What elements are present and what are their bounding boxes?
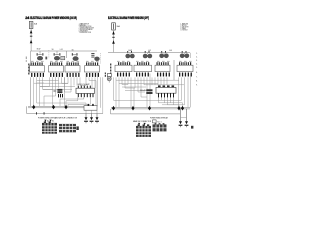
wire right lower jog — [114, 77, 152, 100]
svg-text:B2: B2 — [52, 120, 54, 122]
bottom bus right (double line) — [111, 107, 190, 109]
connector face CN2 (bottom left) — [59, 124, 79, 132]
dashed boundary between S1 S2 — [48, 50, 50, 59]
circuit breaker CB (right) — [107, 74, 111, 83]
wire F2 down — [113, 30, 115, 52]
svg-text:16: 16 — [52, 49, 54, 51]
pin mush inside boxes — [31, 66, 191, 69]
connector arrow A2b — [112, 40, 115, 44]
title right diagram — [108, 16, 149, 20]
switch cluster S3 (left) — [67, 51, 79, 61]
switch cluster S8 (right) — [180, 51, 189, 58]
connector housing box 4 — [85, 66, 100, 72]
connector housing box 3 — [65, 66, 80, 72]
terminal pin row right — [117, 73, 192, 77]
wire jog W2 (amp pin to bus) — [66, 97, 78, 106]
right margin pin list — [196, 53, 198, 87]
figure number 24 — [25, 16, 30, 20]
wire bus to edge column left — [30, 51, 32, 64]
relay K2 (right) — [140, 89, 153, 94]
hatch strip above connector row, right — [118, 62, 191, 65]
pin number mush above strips right — [117, 60, 192, 63]
connector housing box 2 — [49, 66, 64, 72]
connector housing row left: box 1 — [30, 66, 45, 72]
svg-text:7. FUSE JUNCTION: 7. FUSE JUNCTION — [79, 32, 92, 34]
svg-text:RLY 2: RLY 2 — [157, 121, 161, 123]
long wire right at y84.8 — [144, 84, 184, 86]
relay K1 (left) — [53, 89, 63, 98]
terminal pin row left — [31, 73, 99, 77]
wire jog W1 (switch to relay) — [37, 103, 86, 106]
ground G4 — [179, 109, 183, 127]
bottom bus right lower single line — [111, 109, 181, 114]
margin marks left — [25, 57, 28, 62]
ground G5 — [185, 109, 189, 127]
splice ticks on single bus — [35, 112, 38, 114]
wire staircase right — [116, 74, 188, 108]
ground G3 — [95, 113, 99, 123]
pin number mush above strips left — [31, 60, 99, 63]
splice blobs on left bus — [32, 105, 67, 110]
svg-text:POWER WINDOW RELAY: POWER WINDOW RELAY — [150, 117, 168, 120]
left rail wire — [30, 77, 32, 106]
switch cluster S7 (right) — [159, 51, 168, 58]
connector face CN1 (bottom left) — [42, 121, 57, 133]
connector housing box 5 — [115, 65, 132, 71]
fuse F2 (ignition feed, right) — [112, 23, 121, 30]
bus B1 (left feed bus) — [31, 49, 98, 52]
bus B2 (right feed bus) — [108, 50, 190, 52]
switch cluster S2 (left) — [54, 51, 65, 60]
connector housing box 8 — [177, 65, 193, 71]
edge terminal column right diagram — [105, 64, 111, 78]
svg-text:MAIN SW CONNECTOR: MAIN SW CONNECTOR — [133, 120, 151, 123]
terminal mark bottom right — [191, 126, 193, 129]
ground G1 — [84, 113, 88, 123]
legend list right — [181, 23, 189, 32]
svg-text:RELAY: RELAY — [140, 89, 147, 92]
module U2 pin wires down — [131, 77, 174, 107]
nested corner wires right — [159, 103, 183, 108]
relay box R3 — [153, 120, 162, 123]
view arrow V2 — [49, 120, 54, 123]
wire right edge left diagram — [100, 77, 103, 113]
wire F1 down — [30, 29, 32, 52]
wire jog W4 — [68, 97, 90, 106]
relay box R2 (on left bus) — [84, 104, 97, 110]
connector arrow A1b — [30, 40, 33, 44]
wire right edge drop — [190, 53, 192, 108]
svg-text:16: 16 — [72, 49, 74, 51]
svg-text:ELECTRICAL DIAGRAM POWER WINDO: ELECTRICAL DIAGRAM POWER WINDOWS (2/4 DR… — [30, 16, 77, 20]
svg-text:5. FUSE BOX: 5. FUSE BOX — [181, 29, 188, 31]
wire between boxes 7-8 — [173, 60, 175, 80]
switch cluster S4 (left) — [91, 53, 100, 64]
switch cluster S5 (right) — [125, 51, 134, 58]
legend list left — [79, 22, 94, 34]
wire staircase left — [34, 74, 98, 107]
svg-text:POWER WINDOW MAIN SWITCH CONNE: POWER WINDOW MAIN SWITCH CONNECTOR — [38, 116, 77, 119]
switch cluster S1 (left) — [37, 51, 48, 60]
module U2 (power window control, right) — [156, 85, 176, 97]
module U1 (power window amp, left) — [76, 83, 95, 97]
connector arrow A2a — [112, 31, 115, 35]
svg-text:ELECTRICAL DIAGRAM POWER WINDO: ELECTRICAL DIAGRAM POWER WINDOWS (OPT) — [108, 16, 149, 20]
connector housing box 7 — [155, 65, 170, 71]
splice tick T2 — [112, 37, 114, 38]
ladder rungs right — [116, 80, 179, 90]
R2 pin wires — [86, 110, 97, 113]
splice blobs on right bus — [112, 106, 184, 111]
connector housing box 6 — [134, 65, 152, 71]
fuse F1 (ignition feed, left) — [29, 22, 37, 29]
svg-text:B-W: B-W — [37, 49, 41, 51]
splice tick T1 — [30, 36, 32, 37]
view arrow V3 — [138, 123, 140, 125]
title left diagram — [30, 16, 77, 20]
view arrow V4 — [144, 123, 146, 125]
ground G2 — [90, 113, 94, 123]
view arrow V1 — [44, 119, 49, 122]
connector arrow A1a — [30, 30, 33, 34]
edge terminal column left diagram — [28, 64, 29, 75]
bottom bus left (double line) — [28, 106, 85, 108]
ground jog wire — [181, 116, 187, 118]
hatch strip above connector row, left — [31, 62, 99, 65]
bottom bus left lower single line — [27, 106, 104, 113]
connector face CN3 (relay block right) — [153, 123, 167, 131]
wire jog W3 (amp pin to bus) — [60, 97, 84, 106]
switch cluster S6 (right) — [143, 51, 152, 58]
connector face CN4 (bottom right) — [136, 124, 151, 136]
